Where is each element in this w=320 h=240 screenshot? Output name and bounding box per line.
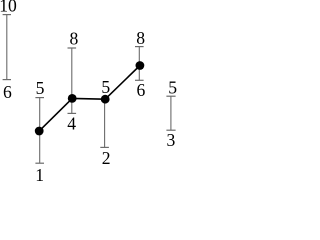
error bar 2 stem (4-8) (71, 48, 73, 113)
error bar 2 top cap (68, 47, 77, 49)
data point P3 (101, 95, 110, 104)
data point P1 (35, 127, 44, 136)
right range bar bottom cap (166, 129, 175, 131)
connecting segment P2-P3 (72, 97, 105, 100)
connecting segment P3-P4 (105, 66, 140, 100)
right range bar stem (3-5) (170, 96, 172, 130)
svg-text:1: 1 (35, 165, 44, 181)
left range bar bottom cap (3, 79, 11, 81)
svg-text:3: 3 (167, 130, 176, 150)
svg-text:6: 6 (137, 80, 146, 100)
left range bar top cap (3, 14, 11, 16)
error bar 3 bottom cap (100, 146, 109, 148)
svg-text:6: 6 (3, 82, 12, 102)
svg-text:4: 4 (67, 114, 76, 134)
right range bar top cap (166, 95, 175, 97)
svg-text:5: 5 (36, 78, 45, 98)
svg-text:5: 5 (168, 78, 177, 98)
left range bar stem (6-10) (6, 15, 8, 80)
error bar 2 bottom cap (68, 112, 77, 114)
svg-text:8: 8 (70, 29, 79, 49)
error bar 4 top cap (135, 46, 144, 48)
svg-text:10: 10 (0, 0, 17, 16)
connecting segment P1-P2 (39, 98, 72, 131)
data point P4 (136, 61, 145, 70)
error bar 4 stem (6-8) (138, 47, 140, 81)
error bar 3 stem (2-5) (104, 99, 106, 147)
svg-text:2: 2 (102, 148, 111, 168)
svg-text:5: 5 (101, 77, 110, 97)
error bar 1 top cap (35, 97, 44, 99)
error bar 4 bottom cap (135, 79, 144, 81)
svg-text:8: 8 (136, 28, 145, 48)
error bar 1 stem (1-5) (39, 98, 41, 164)
error bar 1 bottom cap (35, 162, 44, 164)
data point P2 (68, 94, 77, 103)
